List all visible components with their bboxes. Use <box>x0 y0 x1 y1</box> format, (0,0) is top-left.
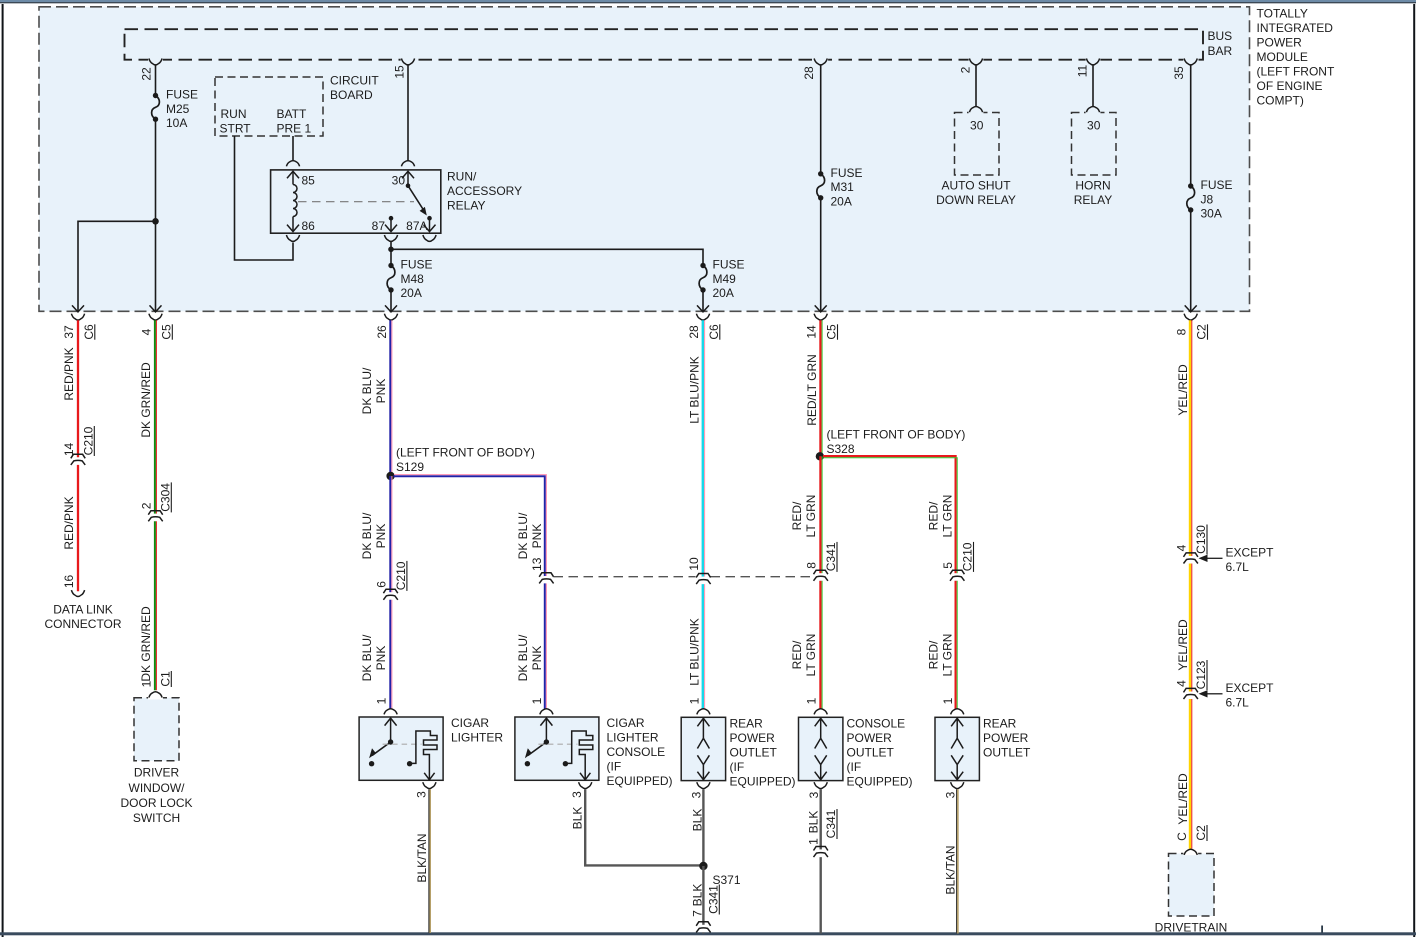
inline connector 7 C341 <box>701 925 706 929</box>
svg-text:15: 15 <box>392 65 406 79</box>
svg-text:20A: 20A <box>831 194 852 208</box>
bus bar pin 11 terminal <box>1086 58 1101 61</box>
svg-text:CONSOLE: CONSOLE <box>607 745 666 759</box>
svg-text:(IF: (IF <box>607 760 622 774</box>
rear power outlet entry bump <box>697 709 710 715</box>
svg-text:M49: M49 <box>713 272 737 286</box>
svg-text:BATT: BATT <box>277 107 307 121</box>
fuse M31 20A <box>818 171 823 176</box>
svg-text:DK BLU/: DK BLU/ <box>360 512 374 559</box>
wire C123 to drivetrain <box>1189 699 1191 849</box>
svg-text:BLK/TAN: BLK/TAN <box>943 845 957 894</box>
svg-text:C341: C341 <box>824 809 838 838</box>
driver window/door lock switch box <box>134 698 179 761</box>
svg-text:C210: C210 <box>81 426 95 455</box>
svg-text:3: 3 <box>807 791 821 798</box>
svg-text:37: 37 <box>62 325 76 339</box>
svg-text:30: 30 <box>1087 118 1101 132</box>
component box <box>515 717 599 780</box>
svg-text:RED/PNK: RED/PNK <box>62 347 76 400</box>
svg-text:FUSE: FUSE <box>1201 178 1233 192</box>
svg-text:6: 6 <box>374 581 388 588</box>
svg-text:S371: S371 <box>713 873 741 887</box>
svg-text:CIGAR: CIGAR <box>607 716 645 730</box>
switch arrow <box>545 718 547 742</box>
svg-text:2: 2 <box>139 502 153 509</box>
svg-text:FUSE: FUSE <box>401 258 433 272</box>
wire fuse M49 to pin28 exit <box>702 290 704 311</box>
svg-text:14: 14 <box>805 325 819 339</box>
svg-text:YEL/RED: YEL/RED <box>1176 619 1190 671</box>
fuse J8 30A <box>1188 183 1193 188</box>
wire BLK S371 to C341 <box>702 866 704 925</box>
horn relay box K2 <box>1072 113 1117 176</box>
svg-text:LT GRN: LT GRN <box>804 495 818 538</box>
svg-text:DOWN RELAY: DOWN RELAY <box>936 193 1016 207</box>
svg-text:OUTLET: OUTLET <box>983 746 1031 760</box>
svg-text:POWER: POWER <box>983 731 1029 745</box>
svg-text:CIRCUIT: CIRCUIT <box>330 73 379 87</box>
mech dashed link <box>383 743 422 745</box>
TIPM exit terminal pin 8 conn C2 <box>1185 305 1197 312</box>
svg-text:WINDOW/: WINDOW/ <box>129 781 186 795</box>
svg-text:35: 35 <box>1172 66 1186 80</box>
switch blade <box>372 742 391 756</box>
wire BLK from console cigar to splice S371 <box>585 789 703 865</box>
svg-text:HORN: HORN <box>1075 178 1110 192</box>
svg-text:(LEFT FRONT: (LEFT FRONT <box>1257 64 1335 78</box>
svg-text:POWER: POWER <box>730 731 776 745</box>
svg-text:1: 1 <box>688 697 702 704</box>
auto shut down relay entry bump <box>969 107 982 113</box>
cigar lighter entry bump <box>384 709 397 715</box>
inline connector 14 C210 <box>76 458 81 462</box>
svg-text:ACCESSORY: ACCESSORY <box>447 184 522 198</box>
svg-text:C210: C210 <box>394 561 408 590</box>
svg-text:BUS: BUS <box>1208 29 1233 43</box>
svg-text:DRIVETRAIN: DRIVETRAIN <box>1155 920 1228 934</box>
outlet contacts <box>702 719 704 739</box>
wire pin2 to auto shut down relay <box>975 65 977 106</box>
wire DK BLU/PNK from pin26 to splice S129 <box>389 320 391 476</box>
svg-text:20A: 20A <box>401 286 422 300</box>
svg-text:26: 26 <box>375 325 389 339</box>
svg-text:C: C <box>1175 832 1189 841</box>
horn relay entry bump <box>1086 107 1099 113</box>
relay pin30 arrow and pivot <box>407 172 409 186</box>
svg-text:C2: C2 <box>1194 825 1208 841</box>
console power outlet entry bump <box>814 709 827 715</box>
svg-text:1: 1 <box>139 680 153 687</box>
data link connector terminal bump <box>71 590 84 596</box>
relay pin85 arrow <box>292 172 294 185</box>
svg-text:PNK: PNK <box>374 379 388 404</box>
svg-text:S328: S328 <box>827 442 855 456</box>
wire C210 pin5 to rear power outlet 2 <box>954 581 956 710</box>
svg-text:YEL/RED: YEL/RED <box>1176 773 1190 825</box>
svg-text:3: 3 <box>944 791 958 798</box>
run/accessory relay U1 <box>271 170 441 233</box>
relay pin87A exit bump <box>423 235 436 241</box>
bus bar pin 28 terminal <box>813 58 828 61</box>
svg-text:DRIVER: DRIVER <box>134 766 180 780</box>
svg-text:PRE 1: PRE 1 <box>277 121 312 135</box>
wire C130 to C123 <box>1189 564 1191 692</box>
wire RED/LT GRN from pin14 to splice S328 <box>819 320 821 456</box>
svg-text:(IF: (IF <box>847 760 862 774</box>
dashed connector link line C341 <box>554 576 696 578</box>
wire RED/PNK from pin37 to C210 <box>77 320 79 457</box>
svg-text:85: 85 <box>302 174 316 188</box>
svg-text:2: 2 <box>958 66 972 73</box>
branch wire S328 to second outlet column <box>823 456 956 573</box>
svg-text:DK GRN/RED: DK GRN/RED <box>139 362 153 438</box>
circuit board box <box>215 77 323 136</box>
svg-text:PNK: PNK <box>374 646 388 671</box>
outlet pin3 exit bump <box>814 782 827 788</box>
svg-text:C5: C5 <box>825 324 839 340</box>
junction node under pin87 <box>388 247 394 253</box>
svg-text:DK GRN/RED: DK GRN/RED <box>139 606 153 682</box>
relay pin30 entry bump <box>401 161 414 167</box>
wire fuse M48 to pin26 exit <box>390 290 392 311</box>
wire LT BLU/PNK from pin28 to conn10 <box>702 320 704 577</box>
svg-text:1: 1 <box>941 697 955 704</box>
wire BLK console outlet to C341 pin1 <box>820 789 822 849</box>
svg-text:M31: M31 <box>831 180 855 194</box>
svg-text:(LEFT FRONT OF BODY): (LEFT FRONT OF BODY) <box>396 446 535 460</box>
svg-text:LIGHTER: LIGHTER <box>451 731 503 745</box>
wire BATT PRE 1 to relay pin85 <box>292 136 294 161</box>
svg-text:SWITCH: SWITCH <box>133 811 180 825</box>
svg-text:RED/PNK: RED/PNK <box>62 496 76 549</box>
svg-text:1: 1 <box>374 697 388 704</box>
svg-text:LIGHTER: LIGHTER <box>607 731 659 745</box>
fuse M48 20A <box>388 263 393 268</box>
fuse M49 20A <box>700 263 705 268</box>
wire fuse M31 to pin14 exit <box>820 198 822 311</box>
svg-text:(LEFT FRONT OF BODY): (LEFT FRONT OF BODY) <box>827 427 966 441</box>
relay switch blade 30-87A <box>408 186 425 212</box>
wire pin35 to fuse J8 <box>1190 65 1192 186</box>
bus bar pin 15 terminal <box>401 58 416 61</box>
wire DK GRN/RED from C304 to driver window switch <box>154 521 156 690</box>
svg-text:C341: C341 <box>706 885 720 914</box>
wire junction to fuse M48 <box>390 249 392 265</box>
svg-text:11: 11 <box>1075 64 1089 77</box>
svg-text:14: 14 <box>62 443 76 457</box>
svg-text:STRT: STRT <box>220 121 252 135</box>
power outlet box <box>799 717 843 780</box>
svg-text:5: 5 <box>941 562 955 569</box>
drivetrain module box <box>1169 854 1215 917</box>
outlet contacts <box>956 719 958 739</box>
outlet pin3 exit bump <box>951 782 964 788</box>
wire fuse M25 to junction <box>155 119 157 221</box>
svg-text:RED/: RED/ <box>926 501 940 530</box>
svg-text:DOOR LOCK: DOOR LOCK <box>120 796 192 810</box>
svg-text:13: 13 <box>530 557 544 571</box>
TIPM exit terminal pin 28 conn C6 <box>697 305 709 312</box>
inline connector 13 <box>544 576 549 580</box>
inline connector 5 C210 <box>955 573 960 577</box>
wire pin22 to fuse M25 <box>155 65 157 95</box>
component box <box>359 717 443 780</box>
relay coil 85-86 <box>293 185 297 217</box>
svg-text:28: 28 <box>802 66 816 80</box>
svg-text:C2: C2 <box>1195 324 1209 340</box>
svg-text:7: 7 <box>690 910 704 917</box>
svg-text:MODULE: MODULE <box>1257 50 1308 64</box>
fuse M25 10A <box>153 93 158 98</box>
svg-text:(IF: (IF <box>730 760 745 774</box>
power outlet box <box>681 717 725 780</box>
svg-text:C6: C6 <box>82 324 96 340</box>
svg-text:C1: C1 <box>158 671 172 687</box>
svg-text:BLK/TAN: BLK/TAN <box>415 833 429 882</box>
bottom tick <box>1321 926 1323 933</box>
branch wire to pin37 exit <box>78 221 156 311</box>
svg-text:RELAY: RELAY <box>447 199 485 213</box>
svg-text:87: 87 <box>372 219 386 233</box>
svg-text:AUTO SHUT: AUTO SHUT <box>941 178 1011 192</box>
inline connector 4 C123 <box>1188 692 1193 696</box>
svg-text:LT BLU/PNK: LT BLU/PNK <box>687 618 701 686</box>
switch blade <box>528 742 547 756</box>
wire junction to fuse M49 column <box>391 249 703 265</box>
wire BLK below C341 to bottom <box>820 857 822 933</box>
svg-text:EQUIPPED): EQUIPPED) <box>607 774 673 788</box>
wire BLK/TAN outlet2 to bottom <box>956 789 958 933</box>
wire BLK outlet1 to splice S371 <box>702 789 704 866</box>
wire BLK below C341 <box>702 932 704 933</box>
bus bar <box>125 29 1204 60</box>
svg-text:PNK: PNK <box>530 524 544 549</box>
svg-text:86: 86 <box>302 219 316 233</box>
svg-text:8: 8 <box>1175 328 1189 335</box>
bus bar pin 2 terminal <box>969 58 984 61</box>
svg-text:POWER: POWER <box>1257 36 1303 50</box>
relay pin86 arrow <box>292 217 294 232</box>
wire RED/PNK from C210 to data link connector <box>77 465 79 591</box>
svg-text:YEL/RED: YEL/RED <box>1176 364 1190 416</box>
bottom frame line <box>0 932 1416 935</box>
TIPM exit terminal pin 4 conn C5 <box>150 305 162 312</box>
relay contact 87 <box>389 216 394 221</box>
inline connector 1 C341 <box>818 850 823 854</box>
svg-text:EQUIPPED): EQUIPPED) <box>730 775 796 789</box>
svg-text:RED/: RED/ <box>790 501 804 530</box>
svg-text:S129: S129 <box>396 460 424 474</box>
svg-text:10: 10 <box>687 557 701 571</box>
svg-text:30: 30 <box>970 118 984 132</box>
svg-text:30: 30 <box>392 174 406 188</box>
splice S328 <box>816 452 824 460</box>
svg-text:3: 3 <box>414 791 428 798</box>
svg-text:LT GRN: LT GRN <box>940 495 954 538</box>
wire relay pin87 to junction <box>390 242 392 250</box>
wire pin28 to fuse M31 <box>820 65 822 174</box>
inline connector 2 C304 <box>153 514 158 518</box>
svg-text:EXCEPT: EXCEPT <box>1226 681 1275 695</box>
svg-text:4: 4 <box>1175 680 1189 687</box>
inline connector 6 C210 <box>388 592 393 596</box>
svg-text:REAR: REAR <box>730 717 764 731</box>
wire C341 pin8 to console power outlet <box>819 581 821 710</box>
svg-text:FUSE: FUSE <box>831 166 863 180</box>
inline connector 8 C341 <box>818 573 823 577</box>
svg-text:FUSE: FUSE <box>166 88 198 102</box>
junction node at M25 branch <box>152 218 159 225</box>
wire S328 down to C341 pin8 <box>819 456 821 573</box>
svg-text:1: 1 <box>805 697 819 704</box>
relay pin86 exit bump <box>286 235 299 241</box>
svg-text:28: 28 <box>687 325 701 339</box>
svg-text:COMPT): COMPT) <box>1257 93 1304 107</box>
top toolbar strip <box>0 0 1416 2</box>
wire conn13 to cigar lighter console <box>544 583 546 709</box>
svg-text:C5: C5 <box>159 324 173 340</box>
svg-text:30A: 30A <box>1201 207 1222 221</box>
C130 except 6.7L callout <box>1199 555 1208 562</box>
wire junction down to pin4 exit <box>155 221 157 311</box>
svg-text:PNK: PNK <box>530 646 544 671</box>
driver window switch entry bump <box>149 692 162 698</box>
svg-text:LT GRN: LT GRN <box>940 634 954 677</box>
branch wire S129 to second cigar lighter column <box>394 476 545 576</box>
svg-text:CIGAR: CIGAR <box>451 716 489 730</box>
svg-text:C304: C304 <box>158 483 172 512</box>
inline connector 10 <box>701 577 706 581</box>
svg-text:REAR: REAR <box>983 717 1017 731</box>
TIPM exit terminal pin 14 conn C5 <box>815 305 827 312</box>
svg-text:20A: 20A <box>713 286 734 300</box>
svg-text:LT GRN: LT GRN <box>804 634 818 677</box>
TIPM exit terminal pin 37 conn C6 <box>72 305 84 312</box>
wire fuse J8 to pin8 exit <box>1190 210 1192 311</box>
svg-text:M48: M48 <box>401 272 425 286</box>
svg-text:OUTLET: OUTLET <box>847 746 895 760</box>
wire BLK/TAN from cigar lighter to bottom <box>428 789 430 933</box>
svg-text:EQUIPPED): EQUIPPED) <box>847 775 913 789</box>
heating element <box>563 761 568 766</box>
svg-text:PNK: PNK <box>374 524 388 549</box>
svg-text:CONSOLE: CONSOLE <box>847 717 906 731</box>
svg-text:RELAY: RELAY <box>1074 193 1112 207</box>
mech dashed link <box>538 743 577 745</box>
svg-text:FUSE: FUSE <box>713 258 745 272</box>
svg-text:1: 1 <box>530 697 544 704</box>
pin3 exit bump <box>423 782 436 788</box>
wire pin15 to relay pin30 <box>407 65 409 161</box>
svg-text:BAR: BAR <box>1208 44 1233 58</box>
outlet contacts <box>820 719 822 739</box>
svg-text:4: 4 <box>1175 544 1189 551</box>
svg-text:RUN/: RUN/ <box>447 170 477 184</box>
svg-text:3: 3 <box>690 791 704 798</box>
outlet pin3 exit bump <box>697 782 710 788</box>
svg-text:RED/: RED/ <box>790 640 804 669</box>
wire pin11 to horn relay <box>1092 65 1094 106</box>
wire RUN STRT to relay pin86 <box>235 136 294 260</box>
svg-text:22: 22 <box>140 67 154 81</box>
C123 except 6.7L callout <box>1199 690 1208 697</box>
svg-text:C210: C210 <box>961 542 975 571</box>
svg-text:C130: C130 <box>1194 525 1208 554</box>
svg-text:BLK: BLK <box>570 807 584 830</box>
svg-text:BLK: BLK <box>690 809 704 832</box>
relay contact 87A <box>427 216 432 221</box>
switch arrow <box>390 718 392 742</box>
wire YEL/RED from pin8 to C130 <box>1189 320 1191 556</box>
svg-text:6.7L: 6.7L <box>1226 695 1250 709</box>
power outlet box <box>935 717 979 780</box>
svg-text:RUN: RUN <box>221 107 247 121</box>
wire conn10 to rear power outlet <box>702 584 704 709</box>
svg-text:C341: C341 <box>824 542 838 571</box>
svg-text:TOTALLY: TOTALLY <box>1257 7 1308 21</box>
svg-text:EXCEPT: EXCEPT <box>1226 545 1275 559</box>
splice S129 <box>386 472 394 480</box>
svg-text:DK BLU/: DK BLU/ <box>360 367 374 414</box>
svg-text:8: 8 <box>805 562 819 569</box>
svg-text:J8: J8 <box>1201 192 1214 206</box>
svg-text:RED/LT GRN: RED/LT GRN <box>805 354 819 426</box>
svg-text:POWER: POWER <box>847 731 893 745</box>
svg-text:DATA LINK: DATA LINK <box>53 602 113 616</box>
relay internal dashed line <box>298 201 414 203</box>
left frame border <box>2 4 4 937</box>
svg-text:M25: M25 <box>166 102 190 116</box>
svg-text:4: 4 <box>139 328 153 335</box>
svg-text:10A: 10A <box>166 116 187 130</box>
svg-text:OUTLET: OUTLET <box>730 746 778 760</box>
svg-text:INTEGRATED: INTEGRATED <box>1257 21 1334 35</box>
auto shut down relay box K1 <box>955 113 1000 176</box>
svg-text:C6: C6 <box>707 324 721 340</box>
right frame border <box>1413 4 1415 937</box>
rear power outlet 2 entry bump <box>951 709 964 715</box>
svg-text:RED/: RED/ <box>926 640 940 669</box>
relay pin87 exit bump <box>384 235 397 241</box>
wire C210 pin6 to cigar lighter <box>389 600 391 710</box>
heating element <box>407 761 412 766</box>
svg-text:BLK: BLK <box>690 884 704 907</box>
svg-text:1: 1 <box>806 838 820 845</box>
svg-text:DK BLU/: DK BLU/ <box>516 634 530 681</box>
wire DK GRN/RED from pin4 to C304 <box>154 320 156 513</box>
drivetrain entry bump <box>1184 849 1197 855</box>
svg-text:DK BLU/: DK BLU/ <box>516 512 530 559</box>
console cigar entry bump <box>540 709 553 715</box>
svg-text:BLK: BLK <box>806 811 820 834</box>
bus bar pin 22 terminal <box>148 58 163 61</box>
svg-text:OF ENGINE: OF ENGINE <box>1257 79 1323 93</box>
TIPM exit terminal pin 26 <box>385 305 397 312</box>
TIPM module box (TOTALLY INTEGRATED POWER MODULE) <box>39 7 1250 312</box>
svg-text:CONNECTOR: CONNECTOR <box>44 617 121 631</box>
svg-text:LT BLU/PNK: LT BLU/PNK <box>687 356 701 424</box>
bus bar pin 35 terminal <box>1183 58 1198 61</box>
inline connector 4 C130 <box>1188 556 1193 560</box>
relay pin85 entry bump <box>286 161 299 167</box>
svg-text:BOARD: BOARD <box>330 88 373 102</box>
svg-text:6.7L: 6.7L <box>1226 560 1250 574</box>
svg-text:DK BLU/: DK BLU/ <box>360 634 374 681</box>
svg-text:C123: C123 <box>1194 660 1208 689</box>
svg-text:16: 16 <box>62 575 76 589</box>
wire S129 down to C210 pin6 <box>389 476 391 592</box>
